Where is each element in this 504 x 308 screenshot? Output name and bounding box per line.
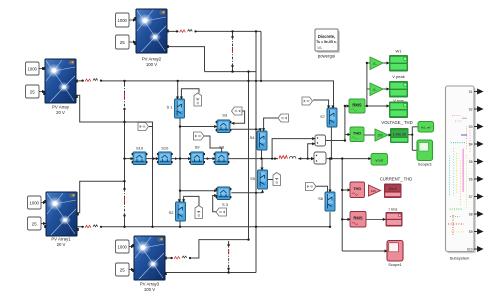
constant 1000 for PV Array [26, 62, 46, 75]
svg-text:S1: S1 [469, 90, 473, 94]
display W1 [389, 49, 408, 80]
wire bottom bus y=226.8 [76, 226, 330, 228]
svg-text:S2: S2 [469, 108, 473, 112]
switch S7 [320, 108, 337, 127]
wire S6b top to load bus / bottom to bus [329, 159, 331, 192]
wire gate tag s10 [149, 126, 153, 128]
dashed measurement branches [125, 37, 233, 269]
svg-text:S9: S9 [195, 145, 201, 150]
wire xA vertical x=248.5 [248, 72, 250, 240]
wire PV1 upper port route [76, 181, 125, 213]
svg-text:S4: S4 [250, 135, 256, 140]
svg-text:Subsystem: Subsystem [450, 256, 470, 261]
wire S5 bottom to S-3 output node [262, 190, 264, 193]
switch S2 [169, 202, 186, 221]
measurement pair on PV3 output wire [170, 255, 191, 261]
wire S4 bottom to row [261, 151, 263, 159]
svg-text:1000: 1000 [118, 18, 128, 23]
switch S8 [214, 145, 230, 165]
wire S-3 lower output to S5 bottom node [231, 192, 262, 194]
red marks of measurement branches [232, 47, 234, 52]
voltage measurement M1 [315, 135, 326, 146]
svg-text:100: 100 [378, 134, 384, 138]
wire THD to gain100 to display D [364, 134, 375, 136]
measurement branch near PV3 x=228.6 [228, 245, 230, 269]
wire M2 out to right [326, 158, 371, 160]
gain P [369, 185, 381, 196]
svg-text:S6: S6 [469, 178, 473, 182]
svg-text:S 3: S 3 [222, 202, 229, 207]
wire PV2 lower port [166, 47, 205, 72]
switch S10 a [132, 146, 148, 165]
gain A [370, 57, 383, 70]
display P2 [386, 212, 403, 227]
wire RMS out to display C [365, 105, 389, 107]
svg-text:20 V: 20 V [56, 110, 65, 115]
svg-text:powergui: powergui [318, 54, 335, 59]
constant 1000 for PV Array2 [116, 13, 137, 27]
svg-text:S3: S3 [222, 113, 228, 118]
wire S7 bottom down to load node [330, 127, 332, 159]
constant 1000 for PV Array3 [116, 240, 135, 253]
subsystem interior signal traces [448, 116, 470, 236]
svg-text:PV Array: PV Array [52, 105, 70, 110]
svg-text:S10: S10 [467, 248, 473, 252]
svg-text:S6: S6 [318, 196, 324, 201]
wire RMS2 to display P2 [366, 218, 386, 220]
wire gate tag s9 [203, 136, 222, 152]
svg-text:S9: S9 [469, 230, 473, 234]
constant 25 for PV Array1 [28, 217, 47, 230]
PV Array3 block [132, 236, 167, 292]
wire gains feed vertical [366, 63, 368, 106]
measurement pair on left PV output wire [81, 78, 102, 84]
svg-text:25: 25 [120, 40, 125, 45]
svg-text:1000: 1000 [30, 200, 40, 205]
svg-text:-K-: -K- [373, 62, 377, 66]
gain B [370, 83, 383, 96]
wire S4 gate loop from tag [264, 118, 278, 131]
wire S3 gate loop from tag [232, 111, 245, 123]
measurement branch x=124.5 upper [124, 84, 126, 109]
svg-text:Scope3: Scope3 [418, 162, 432, 167]
wire vertical x=256 top rail down to PV3 lower [255, 31, 257, 272]
svg-text:S3: S3 [469, 125, 473, 129]
svg-text:S8: S8 [469, 213, 473, 217]
constant 25 for PV Array2 [116, 35, 137, 49]
switch S6 [318, 192, 335, 211]
svg-text:V peak: V peak [392, 74, 404, 79]
svg-text:THD: THD [353, 186, 361, 191]
measurement branch x=124.5 lower [124, 189, 126, 216]
measurement branch across top rails x=232.5 [232, 37, 234, 66]
wire switch row bus y=158.6 [125, 158, 134, 160]
wire left PV lower port route [76, 95, 153, 227]
svg-text:1.43e-26: 1.43e-26 [393, 132, 406, 136]
svg-text:Ts = 5e-05 s.: Ts = 5e-05 s. [316, 40, 337, 44]
wire S5 top from row [261, 159, 263, 170]
svg-text:S7: S7 [320, 114, 326, 119]
svg-text:100 V: 100 V [144, 287, 155, 292]
svg-text:S 1: S 1 [166, 105, 173, 110]
subsystem block [446, 86, 476, 261]
svg-text:100: 100 [371, 189, 376, 193]
scope Scope1 [387, 241, 403, 268]
svg-text:25: 25 [32, 222, 37, 227]
switch S4 mid column [250, 131, 267, 150]
wire vertical x=124.5 branch [124, 81, 126, 84]
label VOLTAGE_THD [381, 120, 412, 125]
svg-text:S7: S7 [469, 195, 473, 199]
svg-text:25: 25 [120, 268, 125, 273]
display C [389, 102, 408, 119]
wire dashed branch top rail ends [232, 31, 234, 37]
wire S1-S2 vertical x=180 [179, 118, 181, 202]
wire gate tag s6v [268, 179, 274, 181]
svg-text:1000: 1000 [118, 244, 128, 249]
svg-text:PV Array3: PV Array3 [140, 282, 160, 287]
from tag [s9] [194, 132, 205, 140]
svg-text:RMS: RMS [352, 103, 362, 108]
from tag [s2] [195, 206, 203, 219]
svg-text:RMS: RMS [353, 216, 363, 221]
PV Array1 block [44, 192, 79, 247]
svg-text:PV Array1: PV Array1 [51, 237, 71, 242]
series measurement symbols on wires [81, 28, 301, 261]
svg-text:S5: S5 [250, 176, 256, 181]
wire vertical x=261 from top rail to main bus [260, 31, 262, 81]
switch S 3 lower [216, 187, 232, 207]
wire S2 bottom to bus [179, 221, 181, 227]
wire S1 top from bus [177, 81, 179, 99]
subsystem port arrows [474, 89, 483, 251]
goto tag vout [371, 154, 388, 166]
arrowheads into vertical switch tops [176, 97, 179, 100]
measurement pair on PV1 lower wire [81, 224, 102, 230]
from tag [s7] [302, 97, 313, 105]
svg-text:25: 25 [30, 90, 35, 95]
svg-text:vout: vout [375, 158, 383, 163]
wire S2 gate loop from tag [184, 196, 199, 205]
svg-text:Scope1: Scope1 [388, 262, 402, 267]
wire y=71.6 rail [205, 71, 257, 73]
input arrowheads on switch row and measurement blocks [131, 61, 392, 252]
label CURRENT_THD [380, 177, 413, 182]
scope Scope3 [417, 140, 433, 167]
svg-text:10e-0: 10e-0 [388, 187, 397, 191]
gain 100 [375, 129, 388, 141]
svg-text:S8: S8 [219, 145, 225, 150]
wire S-3 lower gate loop [213, 196, 217, 212]
measurement pair on PV2 output wire [176, 28, 197, 34]
THD2 block [350, 182, 365, 198]
wire PV2 upper output bus y=31.4 [166, 30, 261, 32]
label I rms [389, 207, 398, 212]
subsystem output ports S1-S10 [467, 90, 473, 252]
svg-text:THD: THD [353, 131, 361, 136]
switch S10 b [157, 146, 173, 165]
svg-text:-K-: -K- [373, 88, 377, 92]
display P1 [384, 184, 402, 199]
wire S-3 lower left input [180, 190, 217, 192]
PV Array2 block [134, 9, 169, 67]
from tag [s4] lower [216, 208, 227, 216]
from tag [s4] right [278, 114, 289, 122]
from tag [s3] [232, 107, 243, 115]
series RL elements on load wire [274, 155, 302, 162]
switch S5 mid column [250, 170, 267, 189]
wire gate tag s7 [313, 100, 329, 108]
wire gate tag s6b [315, 186, 328, 192]
svg-text:100 V: 100 V [146, 62, 157, 67]
from tag [s5] [273, 173, 281, 186]
svg-text:1000: 1000 [28, 66, 38, 71]
switch S3 [216, 113, 232, 133]
svg-text:Hd_ref: Hd_ref [421, 125, 430, 129]
svg-text:S4: S4 [469, 143, 473, 147]
wire left PV upper bus y=80.9 to S7 [76, 81, 334, 108]
wire dashed branch near PV3 solid ends [228, 241, 230, 245]
THD block [350, 127, 364, 142]
svg-text:S5: S5 [469, 160, 473, 164]
wire M1 input taps across RL branch [272, 139, 315, 159]
switch S9 [189, 145, 205, 165]
svg-text:S10: S10 [161, 146, 169, 151]
wire S1 mid to S3 [180, 126, 217, 128]
RMS block [349, 99, 365, 113]
wire M1 out to measurement column [325, 140, 345, 142]
switch S1 [166, 99, 184, 118]
svg-text:W1: W1 [396, 49, 403, 54]
wire S1 gate loop from tag [181, 89, 199, 99]
wire PV3 upper route [164, 240, 249, 258]
wire S3 output to S4 top [231, 129, 260, 131]
constant 1000 for PV Array1 [28, 196, 47, 209]
svg-text:VOLTAGE_ THD: VOLTAGE_ THD [381, 120, 412, 125]
svg-text:20 V: 20 V [57, 242, 66, 247]
svg-text:Discrete,: Discrete, [318, 34, 335, 39]
constant 25 for PV Array3 [116, 263, 135, 276]
constant 25 for PV Array [26, 85, 46, 98]
display V rms [389, 81, 408, 103]
svg-text:CURRENT_ THD: CURRENT_ THD [380, 177, 413, 182]
wire down to pink section x=342.2 [341, 159, 343, 251]
powergui block [315, 29, 340, 59]
svg-text:S2: S2 [169, 210, 175, 215]
from tag [s10] [138, 123, 149, 131]
svg-text:S10: S10 [136, 146, 144, 151]
voltage measurement M2 [314, 152, 326, 164]
wire PV3 lower route [164, 272, 257, 274]
from tag [s6] [306, 183, 317, 191]
svg-text:I rms: I rms [389, 207, 398, 212]
RMS2 block [350, 212, 366, 228]
svg-text:PV Array2: PV Array2 [142, 57, 162, 62]
goto tag Hd_ref [418, 122, 434, 133]
PV Array block [43, 59, 78, 115]
wire display D to wave block and scope3 [408, 134, 412, 136]
display D 1.43e-26 [390, 128, 409, 143]
from tag [s1] [194, 93, 202, 106]
